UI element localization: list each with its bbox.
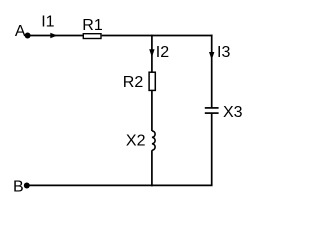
junction bottom wire / branch I2 xyxy=(151,185,153,187)
resistor R1 xyxy=(82,17,103,38)
node B xyxy=(13,178,30,195)
resistor R2 xyxy=(123,72,156,91)
wire branch I3 top xyxy=(211,35,213,108)
svg-text:R2: R2 xyxy=(123,74,144,91)
current arrow I2 xyxy=(149,44,169,61)
svg-text:I3: I3 xyxy=(217,44,230,61)
svg-text:B: B xyxy=(13,178,24,195)
svg-text:A: A xyxy=(15,23,26,40)
svg-text:R1: R1 xyxy=(82,17,103,34)
wire B to bottom-right corner xyxy=(27,184,213,186)
wire X2 to bottom wire xyxy=(151,150,153,185)
wire A to R1 xyxy=(28,35,83,37)
junction top wire / branch I2 xyxy=(151,35,153,37)
wire R2 to X2 xyxy=(151,90,153,131)
wire branch I2 top xyxy=(151,36,153,73)
svg-text:I1: I1 xyxy=(41,14,54,31)
wire R1 to top-right corner xyxy=(102,35,213,37)
current arrow I1 xyxy=(41,14,57,39)
wire X3 to bottom wire xyxy=(211,113,213,185)
node A xyxy=(15,23,31,40)
capacitor X3 xyxy=(205,104,243,121)
current arrow I3 xyxy=(209,44,230,61)
svg-text:X3: X3 xyxy=(223,104,243,121)
inductor X2 xyxy=(126,131,155,150)
svg-text:I2: I2 xyxy=(156,44,169,61)
svg-text:X2: X2 xyxy=(126,133,146,150)
